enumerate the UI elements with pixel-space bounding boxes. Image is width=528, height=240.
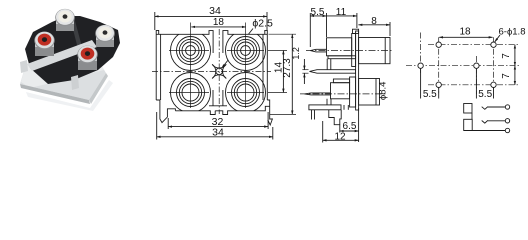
- svg-text:5.5: 5.5: [311, 7, 325, 18]
- legs under block: [326, 99, 328, 105]
- dimension 34 bottom: [157, 112, 273, 140]
- dimension 8 top: [358, 16, 390, 36]
- channel walls bottom + floor: [212, 90, 214, 106]
- pin verticals from block: [326, 59, 328, 70]
- dimension 18: [439, 27, 492, 38]
- side view bottom jack: [300, 77, 389, 107]
- block halves separation: [70, 17, 86, 64]
- terminal circle 1: [505, 105, 509, 109]
- jack BL rings: [177, 79, 205, 107]
- jack circles clipped body bosses: [171, 31, 266, 113]
- top center line: [306, 50, 392, 52]
- bottom edge with tabs: [175, 111, 215, 115]
- bottom pin: [305, 93, 331, 95]
- jack W2: [95, 25, 115, 42]
- jack W1: [55, 9, 75, 26]
- bracket left tab: [20, 60, 28, 73]
- top pin: [310, 49, 326, 52]
- dimension 5.5 left: [421, 69, 439, 100]
- top barrel: [359, 38, 390, 64]
- metal band between rows: [27, 40, 97, 71]
- bracket plate bright band: [21, 60, 104, 88]
- jack TL rings: [177, 37, 205, 65]
- flat middle pin: [310, 70, 356, 74]
- dimension 6.5: [340, 108, 359, 142]
- bottom flange washer: [350, 77, 356, 107]
- svg-text:6-ϕ1.8: 6-ϕ1.8: [499, 26, 526, 37]
- plate top tab: [353, 29, 359, 33]
- center lines: [406, 33, 519, 95]
- svg-text:ϕ2.5: ϕ2.5: [252, 18, 273, 30]
- svg-text:1.2: 1.2: [291, 47, 301, 60]
- bus vertical: [471, 113, 473, 119]
- svg-text:ϕ8.4: ϕ8.4: [378, 82, 389, 101]
- bottom body block: [331, 83, 350, 99]
- inner wall lines: [160, 34, 162, 100]
- stepped support: [329, 110, 341, 125]
- dimension 7 (row1-row2): [501, 45, 515, 66]
- dimension 12: [323, 121, 359, 143]
- holes: [418, 42, 496, 88]
- jack R2 cylinder: [78, 52, 97, 69]
- cloverleaf center boss arcs: [212, 64, 226, 78]
- jack W1 cylinder: [56, 15, 74, 30]
- jack W2 cylinder: [96, 31, 114, 46]
- bottom of body: [156, 90, 272, 125]
- svg-text:34: 34: [212, 126, 224, 138]
- shadow: [26, 80, 113, 111]
- dimension 5.5 right: [476, 69, 493, 100]
- side view top jack: [306, 34, 392, 74]
- svg-text:18: 18: [213, 17, 225, 28]
- svg-text:34: 34: [209, 5, 221, 17]
- svg-text:5.5: 5.5: [423, 89, 437, 100]
- barrel: [359, 79, 380, 106]
- jack TR rings: [232, 37, 260, 65]
- svg-text:7: 7: [501, 73, 512, 79]
- top edge with center bumps: [156, 31, 213, 53]
- bracket middle tab: [71, 75, 79, 90]
- jack R2: [77, 46, 97, 64]
- crosshair lines: [152, 23, 271, 115]
- svg-text:8: 8: [371, 16, 377, 27]
- bracket plate front edges: [20, 84, 90, 104]
- right foot: [267, 100, 272, 125]
- bracket foot: [309, 99, 348, 125]
- switch line 2: [482, 120, 488, 123]
- phi2.5 hole: [216, 68, 223, 75]
- black block: [25, 16, 120, 84]
- side view mounting plate: [353, 29, 359, 110]
- dimension phi2.5: [222, 18, 273, 68]
- leg under plate: [343, 105, 345, 110]
- terminal circle 2: [505, 119, 509, 123]
- top flange washer: [352, 34, 356, 67]
- svg-text:5.5: 5.5: [478, 89, 492, 100]
- svg-text:12: 12: [334, 131, 346, 142]
- jack BR rings: [232, 79, 260, 107]
- front view body outline: [156, 30, 267, 100]
- ground line: [464, 130, 506, 132]
- svg-text:18: 18: [459, 27, 471, 38]
- jack contact box 2: [464, 119, 473, 130]
- svg-text:7: 7: [501, 53, 512, 59]
- dimension 7 (row2-row3): [501, 66, 515, 85]
- dimension 1.2: [291, 47, 309, 84]
- left edge + tab: [156, 30, 159, 100]
- bracket plate top face: [20, 60, 106, 100]
- dimension 32 bottom: [168, 112, 268, 129]
- dimension 27.3 right: [269, 34, 297, 114]
- top body block: [327, 38, 352, 56]
- terminal circle 3: [505, 128, 509, 132]
- svg-text:27.3: 27.3: [282, 58, 293, 78]
- left step and foot: [156, 100, 175, 123]
- 6-phi1.8 label: [495, 26, 526, 42]
- dimension 34 top: [155, 5, 267, 30]
- dimension 18 top: [191, 17, 246, 28]
- horizontal foot plate: [309, 105, 341, 110]
- dimension 14 right: [268, 51, 287, 93]
- switch line 1: [482, 107, 488, 110]
- jack R1: [34, 32, 54, 50]
- dimension 5.5 / 11 top: [310, 7, 357, 47]
- jack R1 cylinder: [35, 38, 54, 55]
- left leg: [311, 110, 313, 120]
- svg-text:11: 11: [336, 7, 347, 18]
- right edge + tab: [265, 30, 268, 100]
- bottom center line: [300, 93, 387, 95]
- jack contact box 1: [464, 104, 472, 114]
